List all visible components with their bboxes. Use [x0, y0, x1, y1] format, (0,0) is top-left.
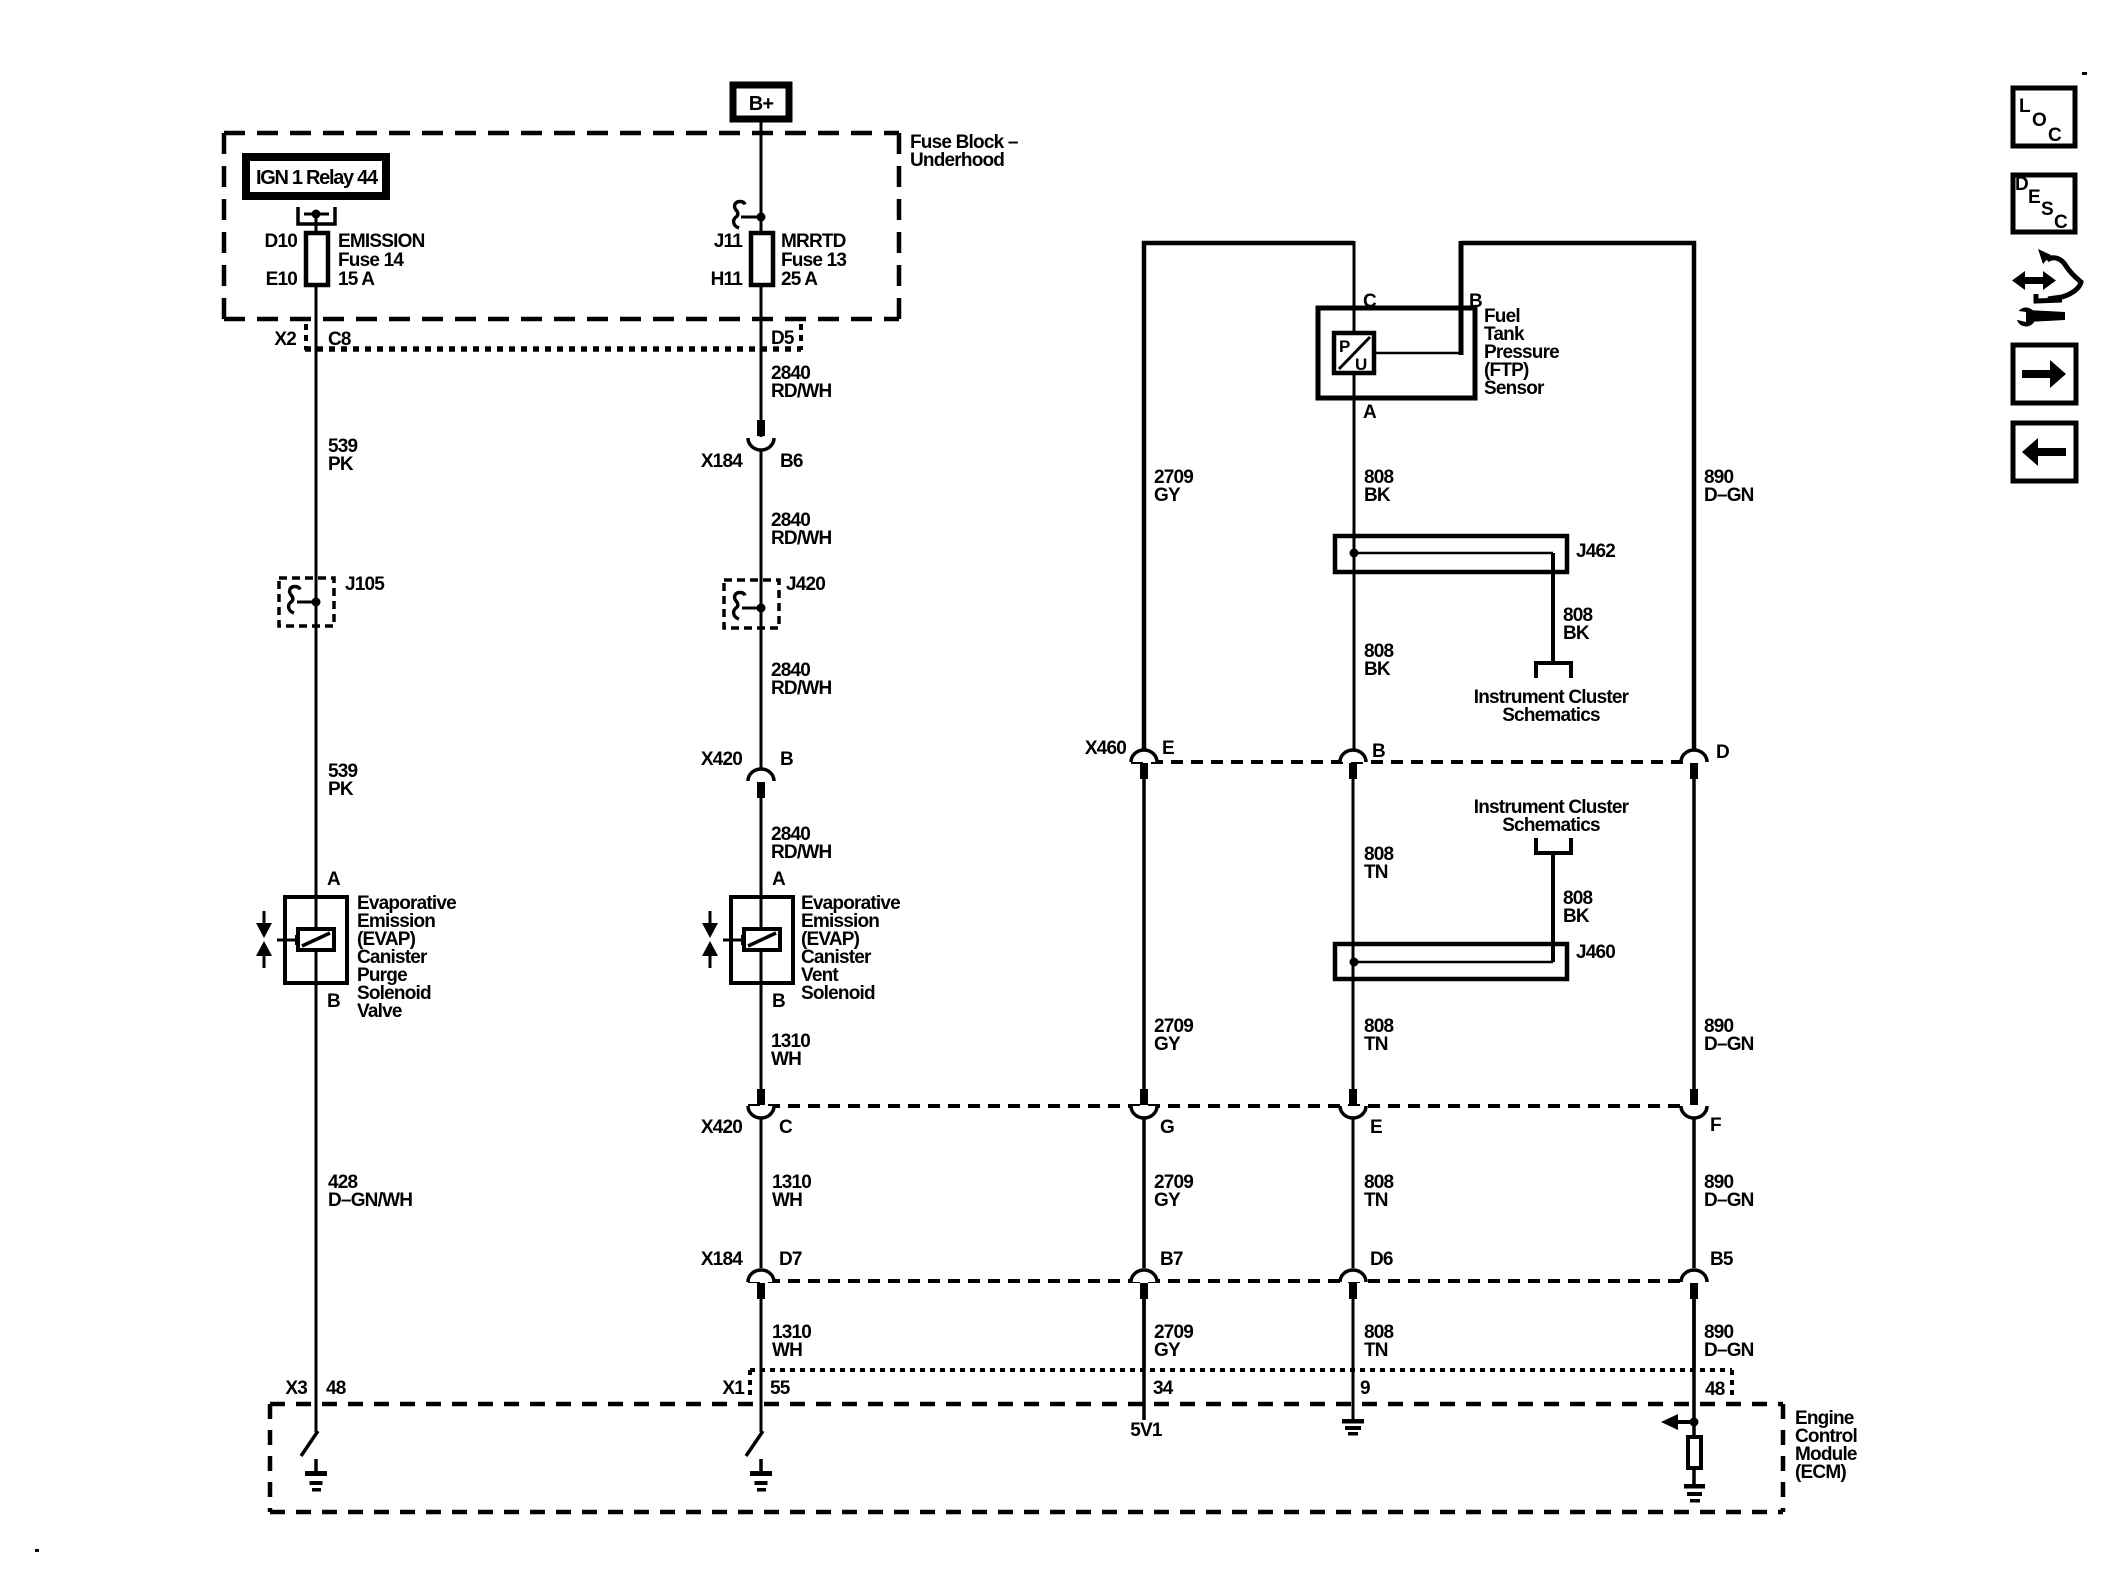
fuse block - underhood dashed box	[224, 133, 899, 319]
connector X184 B7	[1131, 1249, 1183, 1299]
svg-text:WH: WH	[772, 1340, 802, 1361]
ground (ECM X3-48)	[305, 1459, 327, 1492]
row X184 dashed	[748, 1279, 1688, 1283]
wire EVAP vent to X420 C	[760, 983, 763, 1089]
svg-text:X460: X460	[1085, 738, 1126, 759]
svg-text:TN: TN	[1364, 1190, 1388, 1211]
battery terminal B+	[733, 85, 789, 119]
relay IGN 1 Relay 44	[246, 157, 386, 196]
svg-text:48: 48	[1705, 1379, 1725, 1400]
svg-text:A: A	[327, 869, 341, 890]
svg-text:Schematics: Schematics	[1502, 705, 1600, 726]
svg-text:B+: B+	[749, 93, 774, 115]
wire label 539 PK	[328, 761, 358, 800]
svg-text:J105: J105	[345, 574, 385, 595]
svg-text:D5: D5	[771, 328, 795, 349]
wire label 1310 WH	[772, 1322, 811, 1361]
svg-text:X1: X1	[722, 1378, 745, 1399]
svg-text:BK: BK	[1364, 485, 1391, 506]
svg-text:B6: B6	[780, 451, 803, 472]
svg-text:D–GN/WH: D–GN/WH	[328, 1190, 412, 1211]
svg-text:Fuse 14: Fuse 14	[338, 250, 404, 271]
fuse F13 MRRTD	[711, 231, 847, 290]
svg-text:(ECM): (ECM)	[1795, 1462, 1846, 1483]
svg-text:RD/WH: RD/WH	[771, 528, 831, 549]
svg-text:D–GN: D–GN	[1704, 1340, 1754, 1361]
wires below X184 row	[1142, 1299, 1146, 1370]
svg-text:J11: J11	[714, 231, 743, 252]
resistor (ECM internal)	[1688, 1437, 1701, 1468]
svg-text:9: 9	[1360, 1378, 1370, 1399]
svg-text:X420: X420	[701, 1117, 742, 1138]
wire fuse14 to J105	[315, 285, 318, 602]
svg-text:PK: PK	[328, 454, 354, 475]
EVAP purge text	[357, 893, 456, 1022]
svg-text:25 A: 25 A	[781, 269, 818, 290]
wire fuse13 to B6	[760, 285, 763, 437]
wire X420C to X184 D7	[760, 1118, 763, 1268]
pin X3 48	[285, 1378, 345, 1399]
stem down to J460	[1551, 855, 1555, 962]
svg-text:X184: X184	[701, 1249, 743, 1270]
svg-text:EMISSION: EMISSION	[338, 231, 425, 252]
connector X184 B5	[1681, 1249, 1734, 1299]
ECM pin row fine dotted	[750, 1370, 1732, 1398]
connector X460 B	[1340, 741, 1385, 779]
ECM dashed box	[270, 1404, 1783, 1512]
svg-text:TN: TN	[1364, 1034, 1388, 1055]
svg-text:BK: BK	[1364, 659, 1391, 680]
svg-text:D: D	[1716, 742, 1729, 763]
svg-text:E: E	[1370, 1117, 1382, 1138]
LOC icon	[2013, 88, 2075, 146]
connector X460 D	[1681, 742, 1729, 779]
wire label 2840 RD/WH	[771, 510, 831, 549]
svg-text:F: F	[1710, 1115, 1721, 1136]
pins X1 55	[722, 1378, 790, 1399]
svg-text:B7: B7	[1160, 1249, 1183, 1270]
off-page bracket to instrument cluster	[1536, 663, 1571, 678]
svg-text:55: 55	[770, 1378, 791, 1399]
wire relay to fuse14	[315, 214, 318, 233]
svg-text:D6: D6	[1370, 1249, 1393, 1270]
wire labels between rows	[1154, 1172, 1754, 1211]
wire label 1310 WH	[772, 1172, 811, 1211]
wire label 808 TN	[1364, 844, 1394, 883]
svg-text:C: C	[2054, 212, 2068, 233]
svg-text:Sensor: Sensor	[1484, 378, 1545, 399]
svg-text:C: C	[2048, 125, 2062, 146]
splice J105	[279, 574, 385, 626]
svg-text:J420: J420	[786, 574, 825, 595]
ground (ECM 55)	[750, 1459, 772, 1492]
wire B+ down to fuse13	[760, 119, 763, 233]
FTP sensor box	[1318, 308, 1475, 398]
splice pack J460	[1335, 942, 1615, 979]
stray mark top right	[2082, 72, 2087, 75]
EVAP canister vent solenoid	[723, 897, 793, 983]
svg-text:D–GN: D–GN	[1704, 1034, 1754, 1055]
connector X420 C	[701, 1089, 793, 1138]
svg-text:Underhood: Underhood	[910, 150, 1004, 171]
valve arrows symbol	[702, 911, 718, 968]
svg-text:48: 48	[326, 1378, 346, 1399]
car/wrench nav icon	[2005, 249, 2081, 327]
wire X420B to EVAP vent	[760, 798, 763, 897]
DESC icon	[2013, 174, 2075, 233]
svg-text:E10: E10	[266, 269, 298, 290]
next arrow icon	[2013, 345, 2076, 403]
wire label 2840 RD/WH	[771, 363, 831, 402]
connector X420 F	[1681, 1089, 1721, 1136]
EVAP vent text	[801, 893, 900, 1004]
FTP internal wire	[1374, 352, 1461, 355]
svg-text:MRRTD: MRRTD	[781, 231, 846, 252]
splice hook at J11	[734, 202, 766, 229]
svg-text:34: 34	[1153, 1378, 1174, 1399]
wire C stub	[1353, 241, 1356, 333]
svg-text:E: E	[2028, 187, 2040, 208]
wire B stub	[1459, 241, 1464, 355]
svg-text:G: G	[1160, 1117, 1174, 1138]
svg-text:C: C	[779, 1117, 793, 1138]
svg-text:GY: GY	[1154, 485, 1181, 506]
wire top loop right	[1461, 243, 1694, 750]
switch inside ECM (55)	[746, 1431, 763, 1456]
wire label 808 BK (main)	[1364, 641, 1394, 680]
wire labels below X184	[1154, 1322, 1754, 1361]
svg-text:H11: H11	[711, 269, 744, 290]
svg-text:D: D	[2015, 174, 2028, 195]
svg-text:5V1: 5V1	[1130, 1420, 1163, 1441]
svg-text:P: P	[1339, 337, 1350, 356]
wire EVAP purge to ECM	[315, 983, 318, 1432]
wire label 808 BK (stem2)	[1563, 888, 1593, 927]
svg-text:B5: B5	[1710, 1249, 1734, 1270]
svg-text:Schematics: Schematics	[1502, 815, 1600, 836]
svg-text:D–GN: D–GN	[1704, 1190, 1754, 1211]
wire label 2840 RD/WH	[771, 660, 831, 699]
svg-text:A: A	[772, 869, 786, 890]
svg-text:B: B	[780, 749, 793, 770]
wire label 428 D-GN/WH	[328, 1172, 412, 1211]
stray mark bottom left	[35, 1549, 39, 1552]
svg-text:S: S	[2041, 199, 2053, 220]
svg-text:15 A: 15 A	[338, 269, 375, 290]
svg-text:TN: TN	[1364, 862, 1388, 883]
wire label 539 PK	[328, 436, 358, 475]
wire X184 D7 to X1 55	[760, 1299, 763, 1432]
svg-text:O: O	[2032, 110, 2046, 131]
svg-text:GY: GY	[1154, 1190, 1181, 1211]
inline connector X184 B6	[701, 420, 803, 472]
connector X420 G	[1131, 1089, 1174, 1138]
svg-text:PK: PK	[328, 779, 354, 800]
fuse F14 EMISSION	[265, 231, 425, 290]
svg-text:GY: GY	[1154, 1340, 1181, 1361]
svg-text:TN: TN	[1364, 1340, 1388, 1361]
svg-text:IGN 1 Relay 44: IGN 1 Relay 44	[256, 167, 379, 189]
svg-text:B: B	[327, 991, 340, 1012]
svg-text:GY: GY	[1154, 1034, 1181, 1055]
splice J420	[724, 574, 825, 628]
ECM label	[1795, 1408, 1857, 1483]
svg-text:B: B	[1469, 291, 1482, 312]
row X460 dashed	[1131, 760, 1688, 764]
ground (ECM 48)	[1684, 1484, 1705, 1503]
relay contact bracket	[298, 207, 335, 224]
svg-text:J460: J460	[1576, 942, 1615, 963]
svg-text:A: A	[1363, 402, 1377, 423]
svg-text:X420: X420	[701, 749, 742, 770]
svg-text:BK: BK	[1563, 906, 1590, 927]
FTP sensor text	[1484, 306, 1559, 399]
node Fuse Block label	[910, 132, 1018, 171]
svg-text:X2: X2	[274, 329, 296, 350]
wire label 1310 WH	[771, 1031, 810, 1070]
switch inside ECM	[301, 1431, 318, 1456]
svg-text:L: L	[2019, 96, 2031, 117]
wire top loop left	[1144, 243, 1354, 749]
back arrow icon	[2013, 423, 2076, 481]
wires below X460	[1142, 779, 1146, 1089]
wire B6 to J420	[760, 450, 763, 608]
svg-text:X3: X3	[285, 1378, 307, 1399]
connector row X2 / C8 / D5 (dotted)	[274, 324, 801, 350]
connector X184 D6	[1340, 1249, 1393, 1299]
svg-text:WH: WH	[772, 1190, 802, 1211]
wire A down to J462	[1353, 373, 1356, 749]
svg-text:D10: D10	[265, 231, 298, 252]
wire labels above X420 row	[1154, 1016, 1754, 1055]
svg-text:X184: X184	[701, 451, 743, 472]
inline connector X420 B	[701, 749, 793, 798]
row X420 dashed	[748, 1104, 1688, 1108]
svg-text:D7: D7	[779, 1249, 802, 1270]
wire label 2840 RD/WH	[771, 824, 831, 863]
svg-text:J462: J462	[1576, 541, 1615, 562]
connector X184 D7	[701, 1249, 802, 1299]
svg-text:BK: BK	[1563, 623, 1590, 644]
svg-text:D–GN: D–GN	[1704, 485, 1754, 506]
wire labels top	[1154, 467, 1754, 506]
svg-text:B: B	[1372, 741, 1385, 762]
svg-text:Fuse 13: Fuse 13	[781, 250, 846, 271]
svg-text:RD/WH: RD/WH	[771, 842, 831, 863]
wire label 808 BK (stem)	[1563, 605, 1593, 644]
svg-text:E: E	[1162, 738, 1174, 759]
wire J105 to EVAP purge	[315, 602, 318, 897]
svg-text:Solenoid: Solenoid	[801, 983, 875, 1004]
svg-text:WH: WH	[771, 1049, 801, 1070]
svg-text:RD/WH: RD/WH	[771, 381, 831, 402]
svg-text:B: B	[772, 991, 785, 1012]
instrument cluster reference text 1	[1474, 687, 1630, 726]
splice pack J462	[1335, 536, 1615, 663]
instrument cluster reference text 2	[1474, 797, 1630, 836]
valve arrows symbol	[256, 911, 272, 968]
connector X460 E	[1131, 738, 1174, 779]
off-page bracket 2	[1536, 838, 1571, 853]
svg-text:Valve: Valve	[357, 1001, 402, 1022]
wires between X420 and X184 rows	[1142, 1118, 1146, 1268]
FTP P/U sensor element	[1334, 333, 1374, 374]
wire J420 to X420 B	[760, 608, 763, 780]
svg-text:C: C	[1363, 291, 1377, 312]
svg-text:U: U	[1355, 355, 1367, 374]
connector X420 E	[1340, 1089, 1382, 1138]
EVAP canister purge solenoid valve	[277, 897, 347, 983]
svg-text:RD/WH: RD/WH	[771, 678, 831, 699]
